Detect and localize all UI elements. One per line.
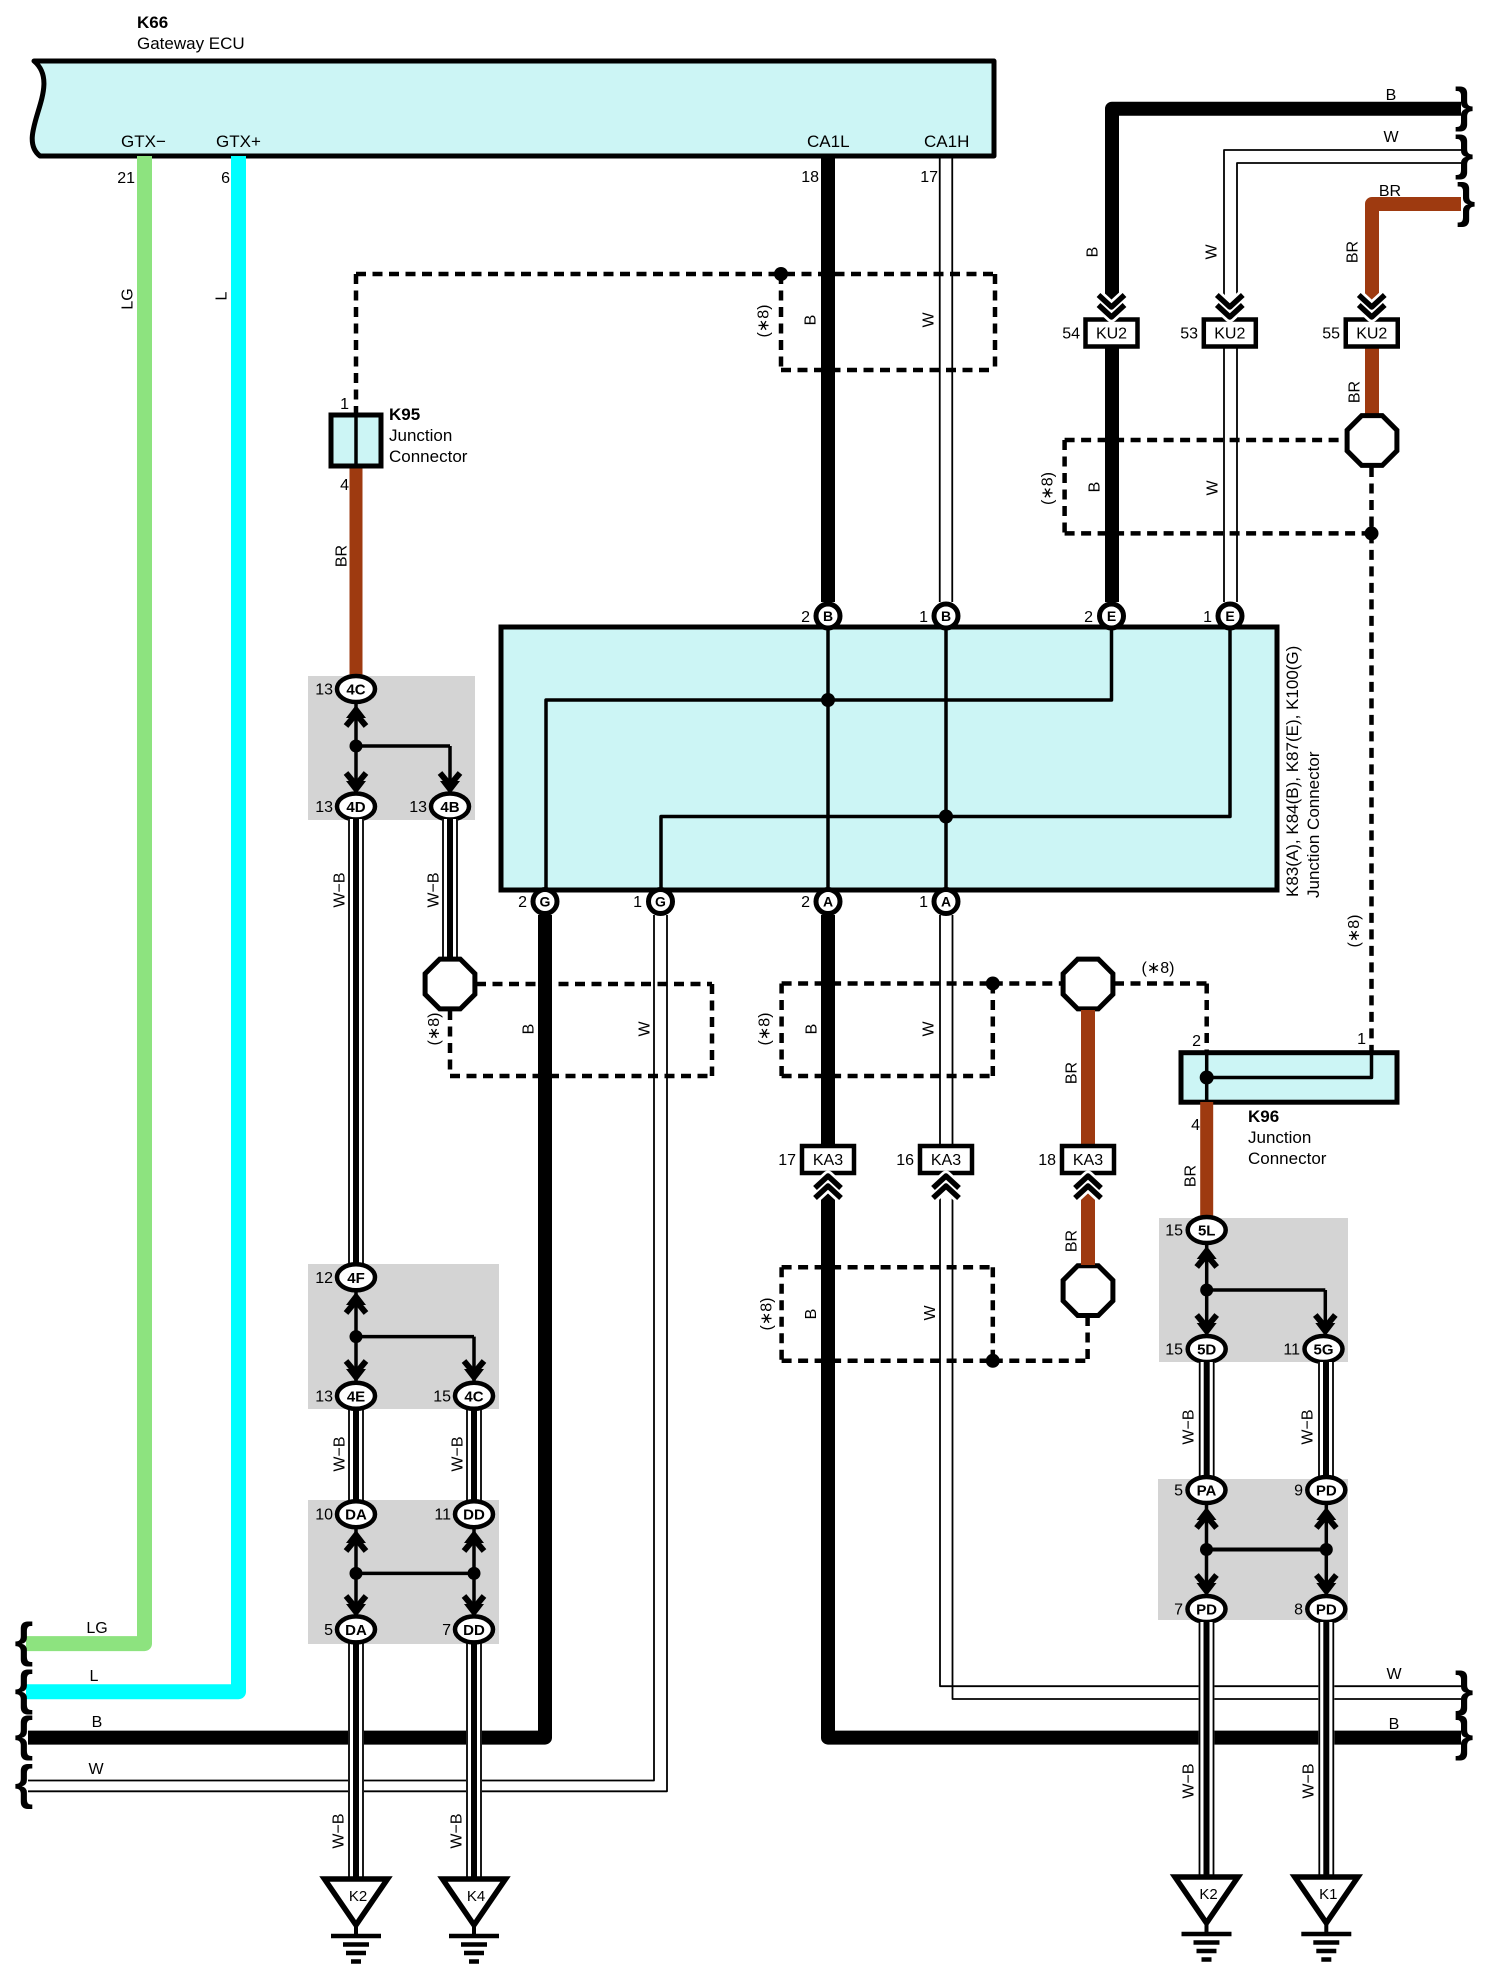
svg-text:BR: BR xyxy=(1345,241,1362,263)
svg-text:W: W xyxy=(636,1021,653,1037)
pin CA1L label xyxy=(807,132,850,151)
svg-text:PD: PD xyxy=(1316,1602,1337,1619)
label BR vertical 55 xyxy=(1345,241,1362,263)
pin 13 4B xyxy=(409,794,469,820)
label W box C xyxy=(921,1021,938,1037)
connector region 5L/5D/5G (gray) xyxy=(1159,1218,1348,1362)
wire BR K95 to 4C xyxy=(350,466,363,676)
junction dot K96 xyxy=(1200,1071,1214,1085)
svg-text:18: 18 xyxy=(801,169,819,186)
label (*8) on dashed drop xyxy=(1346,915,1363,948)
shield (*8) dashed box right xyxy=(1065,440,1372,533)
svg-text:4E: 4E xyxy=(347,1388,365,1405)
pin 9 PD xyxy=(1294,1477,1345,1503)
wire W-B 4D to 4F xyxy=(348,819,364,1264)
svg-text:5L: 5L xyxy=(1198,1223,1216,1240)
svg-text:B: B xyxy=(1389,1716,1400,1733)
label K96 pin 4 xyxy=(1191,1117,1200,1134)
svg-text:CA1L: CA1L xyxy=(807,132,850,151)
pin 1 E xyxy=(1203,604,1242,628)
label W-B 5G xyxy=(1300,1409,1317,1444)
svg-text:5: 5 xyxy=(1174,1483,1183,1500)
svg-text:A: A xyxy=(823,894,833,910)
label BR top right xyxy=(1379,183,1401,200)
svg-text:KA3: KA3 xyxy=(931,1152,961,1169)
connector region DA/DD (gray) xyxy=(308,1500,499,1644)
pin 15 5L xyxy=(1165,1217,1225,1243)
connector region 4C/4D/4B (gray) xyxy=(308,676,475,820)
label (*8) box R xyxy=(1039,472,1056,505)
wire W-B PD7 to ground xyxy=(1199,1622,1215,1877)
label LG vertical xyxy=(120,288,137,309)
pin 7 PD xyxy=(1174,1596,1225,1622)
svg-text:W−B: W−B xyxy=(1300,1409,1317,1444)
wire W-B 5D to PA xyxy=(1199,1362,1215,1477)
pin 1 A xyxy=(919,890,958,914)
connector region PA/PD (gray) xyxy=(1158,1479,1348,1620)
wire LG GTX- to bottom left xyxy=(26,156,145,1644)
svg-text:54: 54 xyxy=(1062,326,1080,343)
arrow down into 55 KU2 xyxy=(1359,295,1385,317)
svg-text:L: L xyxy=(90,1668,99,1685)
label W box A xyxy=(921,312,938,328)
label (*8) box C xyxy=(757,1013,774,1046)
svg-text:K2: K2 xyxy=(349,1888,367,1905)
svg-text:LG: LG xyxy=(86,1620,107,1637)
shield dashed drop to K96 pin 1 xyxy=(1369,533,1374,1052)
svg-text:W: W xyxy=(1204,244,1221,260)
label (*8) near octagon2 xyxy=(1142,960,1175,977)
svg-text:DD: DD xyxy=(463,1622,485,1639)
pin 13 4E xyxy=(315,1383,375,1409)
svg-text:E: E xyxy=(1107,608,1116,624)
svg-text:(∗8): (∗8) xyxy=(759,1298,776,1331)
junction connector K95 xyxy=(331,396,468,494)
ground K2 left xyxy=(325,1879,388,1962)
wire W 1A to bottom right xyxy=(940,915,1461,1699)
shield (*8) dashed box centre xyxy=(782,984,1062,1077)
arrow up into 18 KA3 xyxy=(1075,1176,1101,1198)
svg-text:G: G xyxy=(655,894,666,910)
svg-text:Connector: Connector xyxy=(389,447,468,466)
junction dot K83 lower xyxy=(939,810,953,824)
junction dot DD xyxy=(468,1567,481,1580)
label BR above octagon xyxy=(1347,381,1364,403)
svg-text:W−B: W−B xyxy=(332,872,349,907)
svg-text:W: W xyxy=(1383,129,1399,146)
ground K4 xyxy=(443,1879,506,1962)
shield ring octagon centre xyxy=(1063,959,1113,1009)
label BR K96 wire xyxy=(1183,1165,1200,1187)
label B vertical 54 xyxy=(1085,247,1102,258)
label K83 side text xyxy=(1283,646,1323,898)
svg-text:4D: 4D xyxy=(346,799,365,816)
svg-text:11: 11 xyxy=(1283,1342,1300,1359)
internal wire 2E-2G xyxy=(546,616,1112,901)
svg-text:21: 21 xyxy=(117,170,135,187)
svg-text:}: } xyxy=(1455,128,1474,181)
svg-text:W−B: W−B xyxy=(426,872,443,907)
svg-text:7: 7 xyxy=(442,1622,451,1639)
label B box A xyxy=(803,315,820,326)
internal wire PA-PD links xyxy=(1207,1505,1327,1595)
pin 2 B xyxy=(801,604,840,628)
junction connector K83(A)/K84(B)/K87(E)/K100(G) xyxy=(501,627,1277,890)
label LG bottom xyxy=(86,1620,107,1637)
svg-text:17: 17 xyxy=(778,1152,796,1169)
svg-text:KU2: KU2 xyxy=(1356,326,1387,343)
label W-B PD7 xyxy=(1181,1763,1198,1798)
svg-text:W: W xyxy=(922,1305,939,1321)
pin 7 DD xyxy=(442,1616,493,1642)
svg-text:7: 7 xyxy=(1174,1602,1183,1619)
svg-text:B: B xyxy=(803,315,820,326)
wire W-B PD8 to ground xyxy=(1318,1622,1334,1877)
shield dashed link box D to octagon3 xyxy=(993,1316,1088,1361)
shield (*8) dashed box top centre xyxy=(356,274,995,415)
label W box R xyxy=(1205,480,1222,496)
svg-text:6: 6 xyxy=(221,170,230,187)
svg-text:BR: BR xyxy=(1064,1230,1081,1252)
arrow down into 54 KU2 xyxy=(1099,295,1125,317)
label W-B 4E xyxy=(332,1436,349,1471)
junction dot PD xyxy=(1320,1543,1333,1556)
svg-text:GTX+: GTX+ xyxy=(216,132,261,151)
shield (*8) dashed box left-centre xyxy=(450,984,712,1076)
wire BR K96 to 5L xyxy=(1200,1102,1213,1218)
svg-text:BR: BR xyxy=(1347,381,1364,403)
label (*8) box D xyxy=(759,1298,776,1331)
svg-text:B: B xyxy=(1085,247,1102,258)
svg-text:DA: DA xyxy=(345,1622,367,1639)
arrow down to 5D xyxy=(1197,1315,1217,1336)
internal wire 4C to 4D/4B xyxy=(356,702,450,793)
svg-text:B: B xyxy=(803,1024,820,1035)
arrow down to 4B xyxy=(440,773,460,794)
wire B 2G to bottom left xyxy=(28,915,545,1738)
wire W top right xyxy=(1224,150,1461,602)
label (*8) box B xyxy=(426,1013,443,1046)
label W bottom left xyxy=(88,1761,104,1778)
svg-text:B: B xyxy=(92,1714,103,1731)
label W bottom right xyxy=(1386,1666,1402,1683)
pin 12 4F xyxy=(315,1264,375,1290)
svg-text:{: { xyxy=(15,1615,34,1668)
svg-text:18: 18 xyxy=(1038,1152,1056,1169)
ECU K66 Gateway ECU xyxy=(32,13,994,156)
pin 5 PA xyxy=(1174,1477,1225,1503)
svg-text:W−B: W−B xyxy=(332,1436,349,1471)
svg-text:13: 13 xyxy=(315,799,333,816)
svg-text:4: 4 xyxy=(1191,1117,1200,1134)
shield dashed link octagon2 to K96 pin 2 xyxy=(1114,984,1207,1053)
label W top right xyxy=(1383,129,1399,146)
arrow down to PD 7 xyxy=(1197,1575,1217,1596)
svg-text:(∗8): (∗8) xyxy=(757,1013,774,1046)
junction dot DA xyxy=(350,1567,363,1580)
label B box D xyxy=(803,1309,820,1320)
svg-text:11: 11 xyxy=(434,1507,451,1524)
svg-text:W−B: W−B xyxy=(331,1813,348,1848)
svg-text:W−B: W−B xyxy=(1181,1409,1198,1444)
svg-text:(∗8): (∗8) xyxy=(1346,915,1363,948)
svg-text:5D: 5D xyxy=(1197,1342,1216,1359)
svg-text:B: B xyxy=(823,608,833,624)
svg-text:4C: 4C xyxy=(464,1388,483,1405)
label K96 pin 1 xyxy=(1357,1031,1366,1048)
svg-text:L: L xyxy=(214,291,231,300)
svg-text:KA3: KA3 xyxy=(1073,1152,1103,1169)
break B top right xyxy=(1455,80,1474,133)
label W box B xyxy=(636,1021,653,1037)
pin GTX+ label xyxy=(216,132,261,151)
break L left xyxy=(15,1663,34,1716)
svg-text:BR: BR xyxy=(334,545,351,567)
svg-text:17: 17 xyxy=(920,169,938,186)
svg-text:KA3: KA3 xyxy=(813,1152,843,1169)
shield ring octagon centre lower xyxy=(1063,1266,1113,1316)
svg-text:1: 1 xyxy=(1203,609,1212,626)
svg-text:(∗8): (∗8) xyxy=(1039,472,1056,505)
arrow down to 4D xyxy=(346,773,366,794)
label BR K95 wire xyxy=(334,545,351,567)
svg-text:K2: K2 xyxy=(1199,1886,1217,1903)
svg-text:2: 2 xyxy=(1192,1033,1201,1050)
pin 8 PD xyxy=(1294,1596,1345,1622)
wire B CA1L to pin 2B xyxy=(821,156,835,602)
ground K2 right xyxy=(1175,1877,1238,1960)
svg-text:1: 1 xyxy=(919,609,928,626)
label L bottom xyxy=(90,1668,99,1685)
pin 13 4D xyxy=(315,794,375,820)
arrow up into 17 KA3 xyxy=(815,1176,841,1198)
svg-text:LG: LG xyxy=(120,288,137,309)
label (*8) box A xyxy=(756,305,773,338)
label K96 pin 2 xyxy=(1192,1033,1201,1050)
svg-text:PD: PD xyxy=(1196,1602,1217,1619)
svg-text:}: } xyxy=(1457,175,1476,228)
svg-text:Junction: Junction xyxy=(1248,1128,1311,1147)
wire W-B DA to ground K2 xyxy=(348,1643,364,1877)
svg-text:2: 2 xyxy=(518,894,527,911)
pin number 21 xyxy=(117,170,135,187)
arrow down into 53 KU2 xyxy=(1217,295,1243,317)
svg-text:{: { xyxy=(15,1757,34,1810)
svg-text:W: W xyxy=(921,312,938,328)
label W-B 5D xyxy=(1181,1409,1198,1444)
junction dot shield A xyxy=(774,267,788,281)
arrow down to 5G xyxy=(1315,1315,1335,1336)
svg-text:4B: 4B xyxy=(440,799,459,816)
svg-text:PD: PD xyxy=(1316,1483,1337,1500)
svg-text:GTX−: GTX− xyxy=(121,132,166,151)
ground K1 xyxy=(1295,1877,1358,1960)
svg-text:W−B: W−B xyxy=(1301,1763,1318,1798)
arrow up into 4C xyxy=(346,705,366,726)
shield ring octagon left xyxy=(425,959,475,1009)
label B box C xyxy=(803,1024,820,1035)
junction dot 4C branch xyxy=(350,740,363,753)
break B bottom right xyxy=(1455,1709,1474,1762)
pin 15 4C2 xyxy=(433,1383,493,1409)
svg-text:B: B xyxy=(941,608,951,624)
connector 54 KU2 xyxy=(1062,320,1137,347)
svg-text:5: 5 xyxy=(324,1622,333,1639)
connector region 4F/4E/4C (gray) xyxy=(308,1264,499,1409)
svg-text:2: 2 xyxy=(801,894,810,911)
pin number 6 xyxy=(221,170,230,187)
svg-text:KU2: KU2 xyxy=(1214,326,1245,343)
svg-text:8: 8 xyxy=(1294,1602,1303,1619)
internal wire DA-DD links xyxy=(356,1528,474,1616)
svg-text:(∗8): (∗8) xyxy=(756,305,773,338)
pin number 18 xyxy=(801,169,819,186)
arrow up into DA xyxy=(346,1530,366,1551)
junction connector K96 xyxy=(1181,1053,1397,1103)
pin 15 5D xyxy=(1165,1336,1225,1362)
svg-text:W: W xyxy=(1386,1666,1402,1683)
svg-text:10: 10 xyxy=(315,1507,333,1524)
svg-text:DA: DA xyxy=(345,1507,367,1524)
svg-text:K1: K1 xyxy=(1319,1886,1337,1903)
wire W-B 5G to PD xyxy=(1318,1362,1334,1477)
svg-text:5G: 5G xyxy=(1313,1342,1333,1359)
pin 13 4C xyxy=(315,676,375,702)
svg-text:13: 13 xyxy=(315,1388,333,1405)
label L vertical xyxy=(214,291,231,300)
label B bottom right xyxy=(1389,1716,1400,1733)
svg-text:}: } xyxy=(1455,1664,1474,1717)
wire B 2A to bottom right xyxy=(828,915,1461,1738)
pin 2 A xyxy=(801,890,840,914)
svg-text:53: 53 xyxy=(1180,326,1198,343)
arrow up into PD 9 xyxy=(1316,1507,1336,1528)
wire W-B DD to ground K4 xyxy=(466,1643,482,1877)
wire W CA1H to pin 1B xyxy=(940,156,953,602)
label BR below 18 KA3 xyxy=(1064,1230,1081,1252)
svg-text:4C: 4C xyxy=(346,682,365,699)
wire W-B 4B to shield ring xyxy=(442,819,458,958)
svg-text:1: 1 xyxy=(919,894,928,911)
wire L GTX+ to bottom left xyxy=(26,156,239,1692)
svg-text:Gateway ECU: Gateway ECU xyxy=(137,34,245,53)
pin 11 5G xyxy=(1283,1336,1342,1362)
arrow down to PD 8 xyxy=(1316,1575,1336,1596)
label W box D xyxy=(922,1305,939,1321)
break B bottom left xyxy=(15,1709,34,1762)
svg-text:DD: DD xyxy=(463,1507,485,1524)
svg-text:15: 15 xyxy=(1165,1342,1183,1359)
svg-text:W−B: W−B xyxy=(1181,1763,1198,1798)
internal wire 1B-1A xyxy=(944,616,948,901)
svg-text:12: 12 xyxy=(315,1270,333,1287)
svg-text:4F: 4F xyxy=(347,1270,365,1287)
break BR top right xyxy=(1457,175,1476,228)
label BR above 18 KA3 xyxy=(1064,1062,1081,1084)
svg-text:(∗8): (∗8) xyxy=(426,1013,443,1046)
svg-text:K96: K96 xyxy=(1248,1107,1279,1126)
label W-B 4B xyxy=(426,872,443,907)
svg-text:}: } xyxy=(1455,80,1474,133)
label W-B DD xyxy=(449,1813,466,1848)
pin number 17 xyxy=(920,169,938,186)
svg-text:G: G xyxy=(540,894,551,910)
label W-B 4C2 xyxy=(450,1436,467,1471)
svg-text:BR: BR xyxy=(1379,183,1401,200)
svg-text:W: W xyxy=(88,1761,104,1778)
pin 2 E xyxy=(1084,604,1123,628)
label K96 text xyxy=(1248,1107,1327,1168)
svg-text:13: 13 xyxy=(409,799,427,816)
wire B top right xyxy=(1112,109,1461,602)
junction dot shield C xyxy=(986,977,1000,991)
connector 55 KU2 xyxy=(1322,320,1398,347)
svg-text:13: 13 xyxy=(315,682,333,699)
svg-text:K95: K95 xyxy=(389,405,420,424)
svg-text:K83(A), K84(B), K87(E), K100(G: K83(A), K84(B), K87(E), K100(G) xyxy=(1283,646,1302,897)
svg-text:K66: K66 xyxy=(137,13,168,32)
label W vertical 53 xyxy=(1204,244,1221,260)
arrow down to 4E xyxy=(346,1361,366,1382)
svg-text:1: 1 xyxy=(340,396,349,413)
break W top right xyxy=(1455,128,1474,181)
svg-text:W: W xyxy=(921,1021,938,1037)
wire W-B 4E to DA xyxy=(348,1409,364,1501)
arrow up into 16 KA3 xyxy=(933,1176,959,1198)
svg-text:15: 15 xyxy=(1165,1223,1183,1240)
internal wire 2B-2A xyxy=(826,616,830,901)
arrow down to DD 7 xyxy=(464,1596,484,1617)
break LG left xyxy=(15,1615,34,1668)
svg-text:B: B xyxy=(1087,482,1104,493)
wire BR top right xyxy=(1372,204,1461,414)
svg-text:9: 9 xyxy=(1294,1483,1303,1500)
pin 11 DD xyxy=(434,1501,493,1527)
svg-text:W−B: W−B xyxy=(449,1813,466,1848)
label B box B xyxy=(521,1024,538,1035)
junction dot shield D xyxy=(986,1354,1000,1368)
svg-text:W−B: W−B xyxy=(450,1436,467,1471)
svg-text:2: 2 xyxy=(801,609,810,626)
junction dot 5L branch xyxy=(1200,1284,1213,1297)
junction dot PA xyxy=(1200,1543,1213,1556)
svg-text:2: 2 xyxy=(1084,609,1093,626)
svg-text:BR: BR xyxy=(1064,1062,1081,1084)
svg-text:W: W xyxy=(1205,480,1222,496)
label B top right xyxy=(1386,87,1397,104)
svg-text:B: B xyxy=(1386,87,1397,104)
label W-B DA xyxy=(331,1813,348,1848)
pin 2 G xyxy=(518,890,557,914)
svg-text:1: 1 xyxy=(1357,1031,1366,1048)
arrow up into PA xyxy=(1197,1507,1217,1528)
pin CA1H label xyxy=(924,132,969,151)
pin 10 DA xyxy=(315,1501,375,1527)
svg-text:Junction: Junction xyxy=(389,426,452,445)
svg-text:1: 1 xyxy=(633,894,642,911)
svg-text:B: B xyxy=(803,1309,820,1320)
pin 1 G xyxy=(633,890,672,914)
internal wire 1E-1G xyxy=(661,616,1230,901)
internal wire 4F branch xyxy=(356,1290,474,1381)
break W bottom right xyxy=(1455,1664,1474,1717)
connector 16 KA3 xyxy=(896,1146,972,1173)
arrow down to 4C2 xyxy=(464,1361,484,1382)
svg-text:PA: PA xyxy=(1197,1483,1217,1500)
svg-text:Connector: Connector xyxy=(1248,1149,1327,1168)
label B bottom left xyxy=(92,1714,103,1731)
svg-text:55: 55 xyxy=(1322,326,1340,343)
